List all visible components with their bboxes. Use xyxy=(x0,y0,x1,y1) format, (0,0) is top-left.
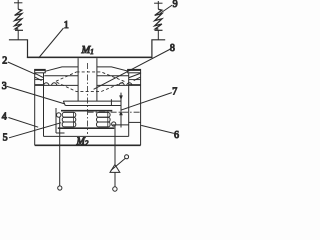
leader 4 xyxy=(8,118,38,128)
spring seat bottom plate xyxy=(58,127,115,129)
leader 8 xyxy=(94,49,171,89)
platform main line thick xyxy=(27,56,153,58)
yoke top-right xyxy=(97,67,129,71)
leader 9 xyxy=(160,5,172,14)
left wall cap xyxy=(34,69,45,72)
leader 6 xyxy=(141,125,174,133)
spring K-left (top-left isolation spring) xyxy=(14,0,23,40)
svg-text:4: 4 xyxy=(2,112,7,123)
svg-text:2: 2 xyxy=(2,55,7,66)
right shelf to wall xyxy=(113,122,141,125)
left terminal circle xyxy=(58,186,62,190)
dashed magnet gap hexagon xyxy=(55,72,125,92)
right wall column xyxy=(129,73,141,146)
spring K-right (top-right isolation spring) xyxy=(154,1,162,40)
sensor triangle xyxy=(110,165,120,173)
right wall cap xyxy=(127,69,141,72)
right terminal circle xyxy=(113,187,117,191)
svg-text:7: 7 xyxy=(172,86,177,97)
membrane line with domes (left) xyxy=(35,83,78,86)
svg-text:6: 6 xyxy=(174,130,179,141)
membrane line with domes (right) xyxy=(97,83,141,86)
leader 3 xyxy=(7,86,65,104)
right coil spring (part 6 area) xyxy=(97,112,116,127)
leader 7 xyxy=(121,93,172,111)
dimension arrow at right of beam xyxy=(119,93,123,128)
leader 2 xyxy=(8,62,36,74)
svg-text:5: 5 xyxy=(3,133,8,144)
pickoff circle xyxy=(125,155,129,159)
spring seat top plate xyxy=(61,110,112,112)
left bracket xyxy=(56,108,65,133)
bottom plate M2 xyxy=(35,136,141,145)
platform M1 (part 1, stepped table top) xyxy=(9,40,165,58)
pole top line right xyxy=(97,75,129,77)
yoke top-left (magnet top plate) xyxy=(45,67,78,71)
svg-text:9: 9 xyxy=(173,0,178,10)
left output wire xyxy=(59,117,61,186)
terminal circle xyxy=(57,113,61,117)
pole top line left xyxy=(44,75,78,77)
left wall column xyxy=(35,73,44,146)
left coil spring (part 5) xyxy=(57,112,76,127)
svg-text:3: 3 xyxy=(2,81,7,92)
svg-text:1: 1 xyxy=(64,20,69,31)
center line horizontal coils (dash-dot) xyxy=(88,111,141,113)
hanger rod left (drive rod) xyxy=(77,58,79,101)
right output wire lower xyxy=(114,172,116,186)
center line vertical (dash-dot) xyxy=(87,63,89,134)
leader 5 xyxy=(9,123,61,138)
svg-text:8: 8 xyxy=(170,43,175,54)
leader 1 xyxy=(39,28,64,58)
armature beam (part 3/7) xyxy=(63,99,121,105)
right output wire upper xyxy=(114,126,116,164)
pickoff diagonal xyxy=(111,158,126,170)
hanger rod right (drive rod) xyxy=(96,58,98,101)
